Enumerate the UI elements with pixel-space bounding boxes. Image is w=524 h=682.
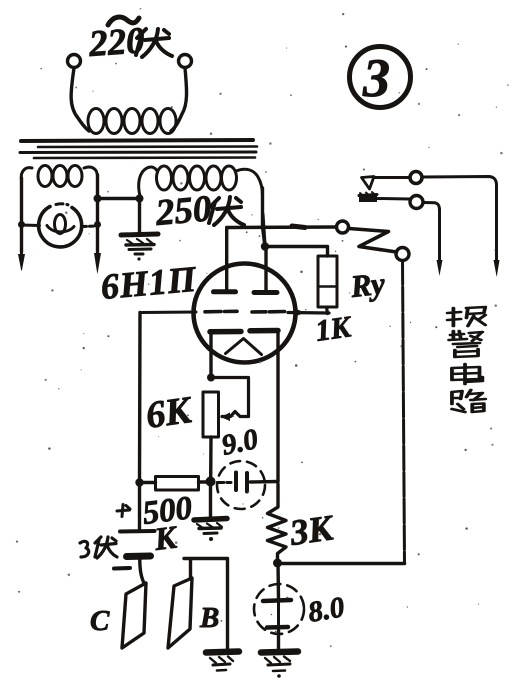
label 3V bbox=[80, 537, 117, 558]
label 250V bbox=[153, 188, 244, 234]
plug P3 bbox=[494, 260, 500, 277]
terminal T2 bbox=[179, 55, 192, 68]
wire to 500K bbox=[140, 481, 156, 484]
svg-text:3К: 3К bbox=[287, 507, 338, 553]
transformer primary winding bbox=[88, 109, 176, 134]
wire heater left bbox=[20, 178, 23, 252]
svg-text:250: 250 bbox=[153, 188, 213, 234]
wire relay to bottom rail bbox=[403, 261, 405, 564]
electrode plate B bbox=[168, 578, 192, 648]
junction bbox=[94, 195, 102, 203]
wire wiper loop bbox=[211, 378, 249, 417]
svg-text:C: C bbox=[90, 605, 110, 637]
wire grid left bbox=[142, 311, 196, 315]
svg-text:6К: 6К bbox=[143, 389, 195, 437]
wire grid right to 1K bbox=[288, 311, 329, 315]
label ~220V bbox=[87, 17, 172, 65]
wire junction to HV winding bbox=[98, 197, 141, 200]
char lu bbox=[452, 391, 465, 412]
tube heater bbox=[226, 339, 262, 355]
junction 500K-6K node bbox=[206, 477, 216, 487]
transformer HV winding 250V bbox=[139, 166, 263, 196]
wire heater right bbox=[96, 175, 99, 252]
svg-text:8.0: 8.0 bbox=[306, 591, 347, 629]
ground G4 bbox=[261, 652, 298, 678]
wire to plug P4 bbox=[423, 203, 440, 263]
capacitor C1 8uF (dashed circle) bbox=[217, 461, 278, 509]
wire anode left to relay bbox=[227, 225, 337, 229]
contact circle bbox=[410, 172, 422, 184]
transformer core bbox=[20, 140, 257, 158]
svg-text:3: 3 bbox=[362, 48, 390, 108]
tube anode left bbox=[225, 228, 228, 290]
wire HV to anode junction bbox=[263, 188, 267, 248]
tube cathodes bbox=[210, 329, 241, 335]
plug P1 bbox=[20, 250, 23, 256]
tube anode right bbox=[264, 247, 267, 290]
relay blade zigzag bbox=[349, 229, 397, 253]
wire grid bus vertical bbox=[138, 313, 142, 483]
wire bottom rail to relay bbox=[278, 562, 405, 566]
wire 6K bottom bbox=[209, 437, 213, 477]
wire 500K right bbox=[199, 480, 211, 483]
svg-text:6Н1П: 6Н1П bbox=[99, 259, 198, 307]
junction cathode-6K node bbox=[207, 374, 215, 382]
char jing bbox=[449, 331, 482, 341]
junction bbox=[18, 221, 25, 228]
char dian bbox=[452, 364, 482, 384]
resistor R1 1K (relay coil) bbox=[318, 256, 337, 307]
wire primary leads bbox=[71, 68, 89, 131]
terminal T1 bbox=[68, 55, 81, 68]
potentiometer R2 6K bbox=[203, 392, 219, 437]
wire cathode right bbox=[276, 333, 279, 481]
wire to plug P3 bbox=[423, 177, 497, 263]
tube grids bbox=[205, 309, 285, 313]
junction 3K bottom node bbox=[273, 559, 282, 568]
relay fixed contact upper (triangle) bbox=[362, 177, 375, 190]
svg-text:B: B bbox=[199, 602, 219, 634]
wire lamp left bbox=[22, 224, 40, 228]
wire upper contact bbox=[374, 176, 410, 179]
contact circle bbox=[410, 196, 423, 209]
capacitor C2 8uF bbox=[254, 563, 304, 650]
wire lower contact bbox=[377, 197, 410, 201]
junction grid-500K node bbox=[135, 478, 143, 486]
plug P2 bbox=[94, 253, 101, 274]
junction node bbox=[136, 195, 144, 203]
ground G1 bbox=[121, 199, 158, 261]
wire plate B to ground bbox=[184, 559, 228, 650]
wire battery to plate C bbox=[140, 560, 144, 583]
wire battery top bbox=[138, 483, 141, 530]
ground G2 bbox=[194, 486, 227, 541]
note alarm circuit (Chinese vertical) bbox=[448, 307, 486, 412]
relay fixed contact lower (hatched) bbox=[359, 195, 377, 196]
wire lamp right bbox=[83, 225, 98, 229]
svg-text:1K: 1K bbox=[313, 310, 354, 348]
wire cathode left bbox=[209, 334, 212, 378]
relay switch armature pivot bbox=[337, 221, 349, 233]
tube V1 6N1P envelope bbox=[194, 264, 296, 363]
relay contact circle lower bbox=[396, 248, 409, 261]
char bao bbox=[448, 308, 461, 326]
figure number 3 bbox=[350, 47, 411, 108]
svg-text:9.0: 9.0 bbox=[219, 423, 261, 462]
battery BT1 3V bbox=[114, 505, 155, 569]
svg-text:220: 220 bbox=[87, 20, 146, 65]
plug P4 bbox=[437, 260, 443, 276]
ground G3 bbox=[206, 652, 239, 671]
svg-text:Ry: Ry bbox=[348, 266, 387, 304]
electrode plate C bbox=[122, 583, 146, 648]
resistor R3 500K bbox=[156, 477, 199, 491]
wire junction to R1K bbox=[265, 247, 328, 257]
resistor R4 3K zigzag bbox=[268, 484, 287, 562]
indicator lamp bbox=[39, 204, 82, 247]
transformer heater winding bbox=[21, 166, 97, 187]
junction anode node bbox=[261, 242, 269, 250]
